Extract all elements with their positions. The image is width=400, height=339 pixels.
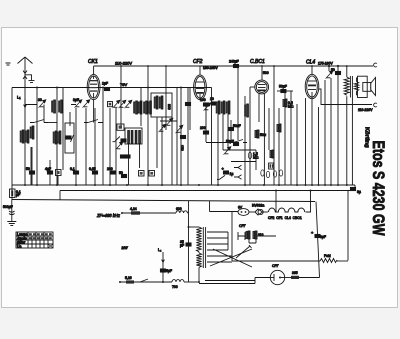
capacitor C33 (120, 155, 125, 158)
wire: x166 vertical (165, 66, 167, 130)
resistor R3 0.15 (149, 171, 155, 177)
svg-text:50: 50 (331, 68, 335, 72)
wire: x12 vertical (11, 88, 13, 200)
resistor R9b (273, 171, 276, 177)
transformer secondary taps (207, 232, 252, 267)
svg-text:CF7: CF7 (272, 264, 279, 268)
wire: chassis bus (12, 200, 315, 202)
wire: CL4 anode to lower C terminal (319, 89, 372, 105)
coil pair 1000/3500 (134, 101, 142, 114)
box 360 (117, 124, 124, 130)
svg-text:5,26: 5,26 (125, 276, 132, 280)
resistor R9 (266, 171, 269, 177)
switch S1 (30, 120, 48, 123)
capacitor C38 (180, 135, 186, 150)
wire: x141 vertical (140, 88, 142, 127)
trimmer C32 (116, 142, 123, 150)
junction dot rail a (328, 65, 330, 67)
svg-text:CF7: CF7 (239, 224, 246, 228)
svg-text:50nF: 50nF (233, 124, 241, 128)
resistor R5 (248, 152, 259, 160)
capacitor C29 60.5uF (160, 262, 172, 282)
svg-text:Ua: Ua (17, 244, 21, 248)
wire: x31 vertical (30, 147, 32, 185)
wire: x327 vertical down (324, 80, 326, 185)
output transformer T3 (344, 66, 359, 185)
wire: mains pair to rectifier (199, 281, 255, 284)
capacitor C7 (89, 108, 98, 185)
svg-text:500: 500 (263, 71, 269, 75)
antenna arrow L1 (17, 95, 26, 108)
svg-text:600: 600 (167, 104, 171, 110)
power transformer T4 (189, 201, 206, 282)
svg-text:5µF: 5µF (166, 269, 172, 273)
svg-text:600: 600 (176, 207, 182, 211)
wire: x352 vertical down (351, 98, 353, 186)
trimmer C10b (125, 100, 132, 108)
IF transformer T1 box (125, 128, 142, 185)
resistor R11 50 (246, 231, 250, 239)
wire: CK1 top cap riser (93, 66, 95, 75)
wire: bus line 1 (12, 184, 355, 186)
resistor R4b (245, 104, 249, 117)
svg-text:200: 200 (200, 126, 206, 130)
wire: x245 vertical (244, 96, 246, 185)
capacitor C22 electrolytic (222, 166, 234, 176)
svg-text:110-220V: 110-220V (358, 108, 373, 112)
svg-text:180-240V: 180-240V (203, 66, 218, 70)
coil pair second (226, 101, 230, 150)
dial coil 600 (176, 207, 189, 213)
junction dots bus1 (24, 87, 348, 284)
svg-text:150: 150 (180, 145, 184, 151)
wire: x110 vertical (109, 108, 111, 185)
svg-text:50: 50 (26, 167, 30, 171)
output jack J2 (234, 175, 242, 179)
tube CK1 (87, 74, 100, 99)
svg-text:ZF=468 kHz: ZF=468 kHz (96, 213, 121, 218)
tube CF2 (194, 70, 207, 100)
antenna terminal mark (6, 63, 11, 65)
coil L7 (30, 126, 34, 139)
capacitor C4 50uF (26, 147, 35, 185)
wire: 78V rail (12, 87, 212, 89)
svg-text:4,24: 4,24 (130, 207, 137, 211)
capacitor C19 200 (200, 126, 209, 134)
resistor R2 0.25 (139, 171, 145, 177)
coil pair L5/L6 oscillator (53, 131, 61, 144)
pilot lamp NV832a (238, 204, 264, 216)
wire: CBC1 top riser (261, 66, 263, 80)
heater chain coils (263, 191, 310, 221)
svg-text:NV832a: NV832a (252, 204, 264, 208)
wire: x338 vertical down (337, 75, 339, 185)
svg-text:365: 365 (292, 271, 298, 275)
capacitor C25 bus end (348, 185, 361, 261)
svg-text:500µF: 500µF (3, 205, 13, 209)
svg-text:100: 100 (200, 98, 206, 102)
capacitor C14 (210, 97, 217, 105)
wire: x181 vertical (180, 88, 182, 186)
junction dots top rail (120, 65, 348, 67)
capacitor C27 500uF (3, 200, 15, 222)
trimmer C9 (113, 100, 120, 108)
wire: row y161 (231, 161, 256, 163)
svg-text:CF2: CF2 (193, 59, 203, 65)
svg-text:CL4: CL4 (306, 60, 315, 66)
svg-text:4µF: 4µF (45, 167, 51, 171)
svg-text:Feld: Feld (324, 254, 331, 258)
resistor R8 (261, 170, 264, 176)
svg-text:35µF: 35µF (180, 240, 184, 247)
scale lamp L (210, 201, 256, 261)
switch S5 (113, 137, 120, 142)
svg-text:0,1: 0,1 (70, 167, 75, 171)
svg-text:175-180V: 175-180V (318, 62, 333, 66)
capacitor C17 50uF (277, 85, 293, 93)
wire: line2 left drop (59, 191, 61, 200)
svg-text:8µF: 8µF (320, 235, 326, 239)
svg-text:Körting: Körting (364, 127, 370, 148)
switch S4 (217, 175, 225, 179)
wire: x211 vertical (211, 88, 213, 186)
ground (7, 222, 16, 226)
switch S2 (84, 120, 103, 123)
svg-text:CF2 CF1 CL4 CBC1: CF2 CF1 CL4 CBC1 (268, 216, 302, 220)
wire: x338 vertical (337, 66, 339, 71)
junction dot rail b (337, 65, 339, 67)
wire: CK1 cathode drop (93, 100, 95, 123)
resistor R4 0.5M (283, 91, 294, 185)
switch S3 (229, 140, 247, 143)
wire: x37 vertical (36, 88, 38, 186)
arrow L4 (158, 248, 164, 262)
wire: x121 vertical (120, 66, 122, 126)
capacitor C28 35uF (180, 240, 191, 247)
box component LS (269, 163, 274, 169)
svg-text:240µF: 240µF (229, 60, 239, 64)
capacitor C30 8uF electrolytic (311, 230, 326, 239)
wire: CF7 plate line (255, 278, 270, 284)
resistor R9c (279, 170, 282, 176)
resistor R12 110 (253, 231, 264, 239)
capacitor C18 100 (200, 98, 209, 131)
trimmer C1 (39, 100, 46, 108)
coil pair 2000/2000 (216, 101, 225, 185)
trimmer C37 (176, 125, 183, 133)
tube CF7 rectifier (270, 270, 284, 284)
svg-text:3µF: 3µF (73, 98, 79, 102)
wire: x318 vertical down (318, 107, 320, 185)
wire: x256 vertical (255, 150, 257, 170)
capacitor C31 (121, 139, 126, 142)
wire: x50 vertical (49, 160, 51, 185)
svg-text:6V: 6V (238, 206, 243, 210)
capacitor C34 (125, 155, 130, 158)
wire: x274 vertical (273, 66, 275, 185)
antenna coil L2 (20, 130, 29, 143)
svg-text:Etos S 4230 GW: Etos S 4230 GW (369, 141, 387, 236)
wire: CF2 top bend (199, 66, 201, 70)
coil pair L3/L4 (52, 100, 63, 113)
wire: x269 vertical (268, 108, 270, 150)
wire: x329 vertical (328, 66, 330, 71)
wire: bus line 2 (60, 190, 352, 192)
svg-text:110-220V: 110-220V (115, 61, 132, 66)
wire: x190 vertical (189, 88, 191, 131)
capacitor C22a electrolytic (226, 140, 239, 146)
wire: x250 vertical (249, 87, 251, 185)
wire: x70 vertical (69, 112, 71, 126)
wire: x76 vertical (75, 108, 77, 185)
svg-text:20: 20 (210, 97, 214, 101)
heater CF7 symbol (238, 232, 245, 240)
capacitor C16 240uF on rail (229, 60, 239, 68)
resistor R1 0.3M (56, 170, 62, 186)
wire: x177 vertical (176, 88, 178, 186)
svg-text:1µF: 1µF (102, 82, 108, 86)
svg-text:C.BC1: C.BC1 (250, 59, 265, 65)
svg-text:CK1: CK1 (88, 59, 98, 65)
capacitor C12 (119, 171, 127, 178)
C terminal upper (374, 63, 377, 67)
capacitor C11 200 (107, 167, 116, 174)
wire: x148 vertical (147, 66, 149, 185)
tube CBC1 (255, 80, 269, 185)
capacitor C13 (185, 88, 190, 185)
capacitor C20 50nF (228, 120, 240, 140)
resistor R6 (270, 150, 274, 158)
antenna (18, 57, 33, 70)
wire: x63 vertical (62, 88, 64, 171)
svg-text:50π: 50π (260, 133, 267, 137)
wire: x291 vertical (290, 91, 292, 185)
svg-text:30: 30 (38, 98, 42, 102)
trimmer C36 (159, 124, 166, 132)
capacitor C5 4uF (45, 167, 53, 174)
resistor R13 365 (285, 271, 320, 279)
wire: rows near 150 (206, 134, 256, 150)
output jack J1 (234, 165, 242, 169)
boxed capacitor C26 0.1uF (10, 189, 21, 198)
trimmer C15 (204, 103, 211, 111)
wire: row y121 seg (160, 120, 177, 122)
wire: x276 vertical (275, 191, 277, 213)
lightning arrester F1 (23, 70, 35, 185)
wire: x103 vertical (102, 88, 104, 186)
oscillator box (65, 123, 74, 153)
wire: x315 vertical right (316, 202, 320, 278)
wire: x334 vertical down (330, 78, 332, 185)
svg-text:1µ: 1µ (230, 172, 234, 176)
trimmer C2 (75, 100, 82, 108)
wire: x57 vertical (56, 88, 58, 186)
voltage selector arrow (236, 245, 252, 258)
speaker LS (357, 76, 376, 97)
resistor R4c (255, 130, 267, 138)
svg-text:700: 700 (172, 285, 178, 289)
bottom mains line (119, 276, 199, 289)
wire: selector links (249, 236, 276, 243)
wire: top B+ rail (94, 65, 373, 67)
svg-text:50: 50 (119, 171, 123, 175)
wire: x86 vertical (85, 108, 87, 185)
C terminal lower (374, 103, 377, 107)
svg-text:200: 200 (107, 167, 113, 171)
capacitor C8 at CK1 (102, 82, 110, 91)
wire: CBC1 left grid (250, 86, 255, 88)
tube CL4 (305, 74, 319, 185)
wire: x172 vertical (171, 117, 173, 185)
wire: x238 vertical (237, 68, 239, 140)
wire: CL4 top riser (311, 66, 313, 75)
wire: x297 vertical (296, 104, 298, 185)
trimmer C23 (326, 71, 333, 79)
capacitor C6 (70, 167, 79, 174)
trimmer C35 (166, 118, 173, 126)
trimmer C10 (119, 100, 126, 108)
capacitor C24 (331, 68, 341, 75)
resistor R14 150 (108, 102, 113, 107)
trimmer C3 (83, 100, 90, 108)
field coil Feld (232, 254, 348, 263)
wire: row y104 short links (25, 104, 76, 106)
IF transformer T2 box (151, 93, 172, 185)
wire: row y122 (48, 122, 57, 124)
resistor R7 (277, 108, 281, 185)
dial circuit: resistor R10 4.24 (121, 207, 176, 215)
voltage table (16, 232, 53, 248)
svg-text:8µ: 8µ (357, 190, 361, 194)
wire: x116 vertical (115, 108, 117, 185)
coil pair 6000/10000 (144, 101, 152, 114)
svg-text:50µF: 50µF (279, 85, 287, 89)
trimmer C21 (224, 147, 231, 155)
svg-text:MW: MW (122, 246, 129, 250)
wire: x44 vertical (43, 105, 45, 123)
